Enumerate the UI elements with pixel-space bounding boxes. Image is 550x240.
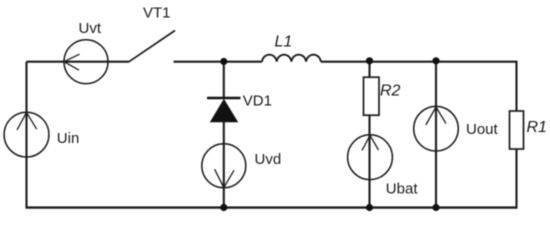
junction node: bottom wire / Ubat branch [366, 204, 373, 211]
wire bottom horizontal [26, 206, 518, 208]
diode VD1 cathode bar [207, 97, 241, 100]
wire right vertical upper (to R1) [515, 61, 517, 111]
wire VD1 anode branch vertical [223, 62, 225, 98]
junction node: bottom wire / Uout branch [432, 204, 439, 211]
source Uvd circle [202, 144, 246, 188]
svg-text:VD1: VD1 [243, 93, 272, 110]
wire top right segment (L1 to right corner) [321, 61, 517, 63]
source Uvd arrow barbs (pointing down) [215, 169, 234, 187]
wire VD1 to Uvd to bottom vertical [223, 122, 225, 208]
svg-text:L1: L1 [275, 33, 293, 50]
junction node: top wire / Uout branch [432, 57, 439, 64]
junction node: top wire / R2 branch [366, 57, 373, 64]
wire top-left segment (to switch) [27, 61, 130, 63]
resistor R2 body [364, 77, 380, 115]
source Uout arrow barbs (pointing up) [426, 107, 446, 125]
wire R2 branch top vertical [368, 62, 370, 77]
svg-text:VT1: VT1 [143, 5, 171, 22]
source Uout circle [414, 106, 459, 151]
svg-text:Uvt: Uvt [79, 20, 102, 37]
svg-text:Uin: Uin [57, 130, 80, 147]
source Ubat arrow barbs (pointing up) [362, 135, 379, 150]
wire top middle segment (switch to L1) [174, 61, 263, 63]
source Uvt circle [64, 40, 108, 84]
wire right vertical lower (R1 to bottom) [515, 149, 517, 208]
inductor L1 [262, 55, 321, 62]
source Ubat circle [348, 135, 393, 180]
wire Uout branch vertical [435, 62, 437, 208]
svg-text:Uvd: Uvd [255, 151, 282, 168]
junction node: top wire / VD1 branch [220, 58, 227, 65]
source Uvt arrow barbs (pointing left) [64, 54, 80, 70]
resistor R1 body [510, 111, 524, 149]
switch VT1 blade [129, 31, 175, 62]
diode VD1 triangle (anode, pointing up) [210, 99, 238, 123]
source Uin arrow barbs (pointing up) [17, 112, 37, 130]
source Uin circle [4, 112, 49, 157]
wire R2 to Ubat to bottom vertical [368, 115, 370, 207]
wire left vertical (Uin branch) [25, 62, 27, 208]
svg-text:Ubat: Ubat [386, 181, 419, 198]
svg-text:Uout: Uout [466, 121, 499, 138]
svg-text:R1: R1 [527, 119, 547, 136]
svg-text:R2: R2 [380, 82, 401, 99]
junction node: bottom wire / Uvd branch [220, 204, 227, 211]
